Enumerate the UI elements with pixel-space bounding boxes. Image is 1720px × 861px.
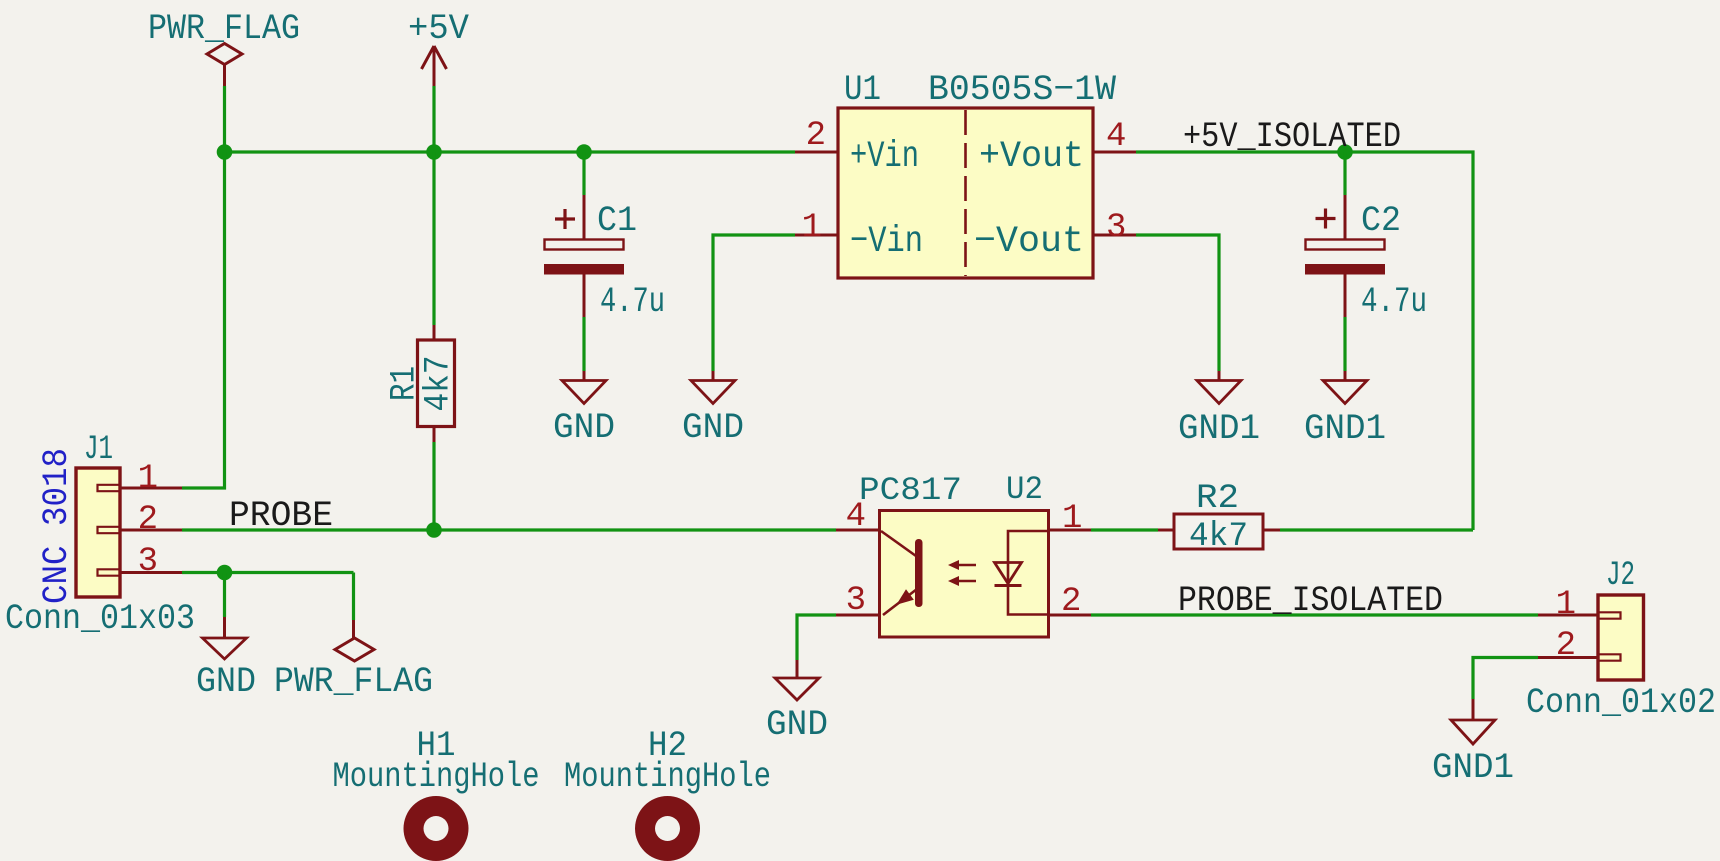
wire +5V top rail: [225, 150, 796, 153]
svg-text:Conn_01x03: Conn_01x03: [5, 599, 195, 639]
wire U2 pin1 to R2: [1091, 528, 1158, 531]
svg-text:4.7u: 4.7u: [1361, 282, 1427, 322]
wire +5V stem: [432, 86, 435, 152]
svg-text:+Vout: +Vout: [979, 136, 1084, 178]
svg-text:U1: U1: [844, 70, 881, 110]
svg-text:C1: C1: [597, 201, 637, 241]
ground GND under -Vin: [682, 371, 744, 448]
wire R1 bottom to PROBE: [432, 442, 435, 530]
svg-text:J1: J1: [84, 431, 113, 469]
svg-text:GND1: GND1: [1432, 748, 1514, 788]
junction top rail at PWR_FLAG: [217, 144, 233, 160]
svg-text:PWR_FLAG: PWR_FLAG: [148, 9, 300, 49]
svg-text:4.7u: 4.7u: [600, 282, 665, 322]
pin 2 (cathode): [1049, 614, 1092, 617]
svg-text:GND1: GND1: [1178, 409, 1260, 449]
pin 2 (+Vin): [795, 151, 838, 154]
svg-text:PWR_FLAG: PWR_FLAG: [274, 662, 433, 702]
wire -Vout to GND1: [1136, 235, 1219, 371]
pin 1 (anode): [1049, 529, 1092, 532]
svg-text:2: 2: [138, 501, 158, 539]
svg-text:4k7: 4k7: [1189, 518, 1248, 556]
connector J2 Conn_01x02: [1526, 557, 1716, 723]
svg-text:GND: GND: [196, 662, 256, 702]
svg-text:3: 3: [1106, 209, 1126, 247]
pin 3 (emitter): [836, 614, 880, 617]
svg-text:+5V_ISOLATED: +5V_ISOLATED: [1183, 117, 1401, 157]
svg-text:MountingHole: MountingHole: [564, 757, 771, 797]
wire C2 bottom: [1343, 317, 1346, 371]
svg-text:PROBE: PROBE: [229, 496, 333, 536]
junction PROBE at R1: [426, 522, 442, 538]
svg-text:U2: U2: [1006, 471, 1043, 508]
ground GND under J1: [196, 617, 256, 702]
wire C1 bottom: [582, 317, 585, 371]
light arrow lower: [958, 580, 976, 583]
junction isolated rail at C2: [1337, 144, 1353, 160]
transistor bar: [915, 539, 923, 607]
wire U2 pin2 to J2 pin1: [1091, 613, 1538, 616]
pin 2: [1538, 656, 1598, 659]
svg-text:1: 1: [1556, 586, 1576, 624]
resistor R2: [1158, 480, 1280, 556]
ground GND1 under -Vout: [1178, 371, 1260, 449]
LED cathode bar: [995, 584, 1022, 587]
mounting hole H1: [333, 726, 540, 861]
wire U1 -Vin to GND: [713, 235, 795, 371]
wire PWR_FLAG branch: [352, 573, 355, 621]
svg-text:GND1: GND1: [1304, 409, 1386, 449]
svg-text:3: 3: [846, 582, 866, 620]
pin 1 (-Vin): [795, 234, 838, 237]
wire PROBE from J1 pin2 to U2 pin4: [182, 528, 836, 531]
transistor emitter line with arrow: [883, 589, 917, 615]
svg-text:GND: GND: [682, 408, 744, 448]
power flag PWR_FLAG (top): [148, 9, 300, 86]
svg-text:+5V: +5V: [408, 9, 469, 49]
wire R2 to +5V_ISOLATED vertical: [1280, 528, 1473, 531]
svg-text:J2: J2: [1606, 557, 1635, 595]
svg-text:4: 4: [846, 498, 866, 536]
svg-text:+Vin: +Vin: [850, 136, 919, 178]
svg-text:2: 2: [1061, 583, 1081, 621]
svg-text:MountingHole: MountingHole: [333, 757, 540, 797]
capacitor C2: [1305, 195, 1427, 322]
ground GND under C1: [553, 371, 615, 448]
svg-text:C2: C2: [1361, 201, 1401, 241]
dc-dc converter U1 B0505S-1W: [795, 70, 1136, 278]
wire C1 top: [582, 152, 585, 195]
svg-text:Conn_01x02: Conn_01x02: [1526, 683, 1716, 723]
svg-text:2: 2: [806, 117, 826, 155]
svg-text:GND: GND: [553, 408, 615, 448]
junction top rail at C1: [576, 144, 592, 160]
svg-text:2: 2: [1556, 627, 1576, 665]
svg-text:R2: R2: [1196, 480, 1239, 518]
LED triangle: [995, 563, 1022, 584]
wire +5V_ISOLATED rail to right vertical: [1136, 152, 1473, 530]
power symbol +5V: [408, 9, 469, 86]
svg-text:4k7: 4k7: [419, 356, 459, 412]
junction J1 pin3: [217, 565, 233, 581]
junction top rail at +5V / R1: [426, 144, 442, 160]
svg-text:3: 3: [138, 543, 158, 581]
capacitor C1: [544, 195, 665, 322]
wire PWR_FLAG stem: [223, 86, 226, 152]
svg-text:PC817: PC817: [859, 472, 962, 509]
wire J1 pin3 to GND and PWR_FLAG: [182, 571, 354, 574]
optocoupler U2 PC817: [836, 471, 1091, 637]
connector J1 Conn_01x03 CNC 3018: [5, 431, 195, 639]
svg-text:−Vout: −Vout: [974, 221, 1084, 263]
wire C2 top: [1343, 152, 1346, 195]
ground GND1 under J2: [1432, 699, 1514, 788]
wire R1 top: [432, 152, 435, 325]
svg-text:GND: GND: [766, 705, 828, 745]
wire J2 pin2 to GND1: [1473, 658, 1538, 700]
svg-text:PROBE_ISOLATED: PROBE_ISOLATED: [1178, 581, 1443, 621]
pin 1: [120, 487, 182, 490]
svg-text:−Vin: −Vin: [850, 221, 923, 263]
svg-text:CNC 3018: CNC 3018: [37, 448, 77, 604]
pin 3: [120, 571, 182, 574]
pin 4 (+Vout): [1093, 151, 1136, 154]
ground GND under U2: [766, 660, 828, 745]
wire J1 pin1 to top rail: [182, 152, 225, 488]
mounting hole H2: [564, 726, 771, 861]
pin 1: [1538, 614, 1598, 617]
svg-text:B0505S−1W: B0505S−1W: [928, 70, 1116, 110]
svg-text:4: 4: [1106, 118, 1126, 156]
wire U2 pin3 to GND: [797, 615, 836, 660]
pin 4 (collector): [836, 529, 880, 532]
power flag PWR_FLAG (bottom): [274, 620, 433, 702]
svg-text:1: 1: [802, 209, 822, 247]
pin 2: [120, 529, 182, 532]
svg-text:1: 1: [138, 460, 158, 498]
pin 3 (-Vout): [1093, 234, 1136, 237]
transistor collector line: [881, 531, 916, 556]
LED vertical and connections: [1008, 531, 1049, 615]
resistor R1: [385, 325, 459, 442]
svg-text:1: 1: [1062, 500, 1082, 538]
wire GND branch: [223, 573, 226, 618]
light arrow upper: [958, 564, 976, 567]
ground GND1 under C2: [1304, 371, 1386, 449]
